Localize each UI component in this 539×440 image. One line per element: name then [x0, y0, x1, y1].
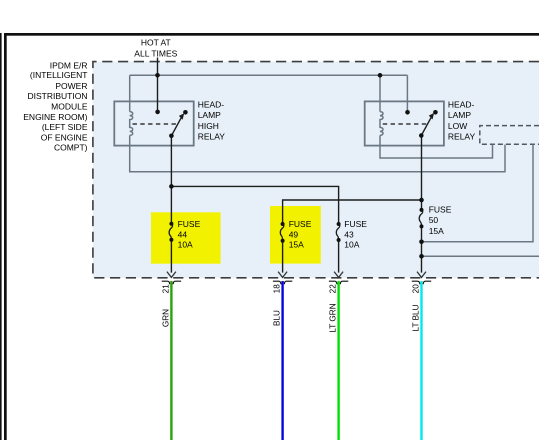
- svg-text:21: 21: [162, 284, 171, 294]
- svg-text:LAMP: LAMP: [448, 110, 471, 120]
- svg-text:RELAY: RELAY: [198, 131, 226, 141]
- svg-text:BLU: BLU: [273, 310, 282, 326]
- svg-text:15A: 15A: [429, 226, 444, 236]
- svg-text:44: 44: [178, 229, 188, 239]
- svg-text:MODULE: MODULE: [51, 102, 88, 112]
- svg-text:DISTRIBUTION: DISTRIBUTION: [28, 91, 88, 101]
- svg-text:HEAD-: HEAD-: [198, 100, 225, 110]
- svg-text:HEAD-: HEAD-: [448, 100, 475, 110]
- svg-text:ALL TIMES: ALL TIMES: [134, 48, 177, 58]
- svg-text:POWER: POWER: [55, 81, 87, 91]
- svg-text:HOT AT: HOT AT: [141, 37, 171, 47]
- svg-text:HIGH: HIGH: [198, 121, 219, 131]
- svg-text:FUSE: FUSE: [429, 205, 452, 215]
- svg-text:LT GRN: LT GRN: [329, 303, 338, 332]
- svg-text:LT BLU: LT BLU: [412, 304, 421, 331]
- svg-text:(LEFT SIDE: (LEFT SIDE: [42, 122, 88, 132]
- svg-text:10A: 10A: [344, 240, 359, 250]
- svg-text:FUSE: FUSE: [178, 219, 201, 229]
- svg-text:20: 20: [412, 284, 421, 294]
- svg-text:43: 43: [344, 229, 354, 239]
- svg-text:COMPT): COMPT): [54, 143, 88, 153]
- svg-text:(INTELLIGENT: (INTELLIGENT: [30, 70, 88, 80]
- svg-text:18: 18: [273, 284, 282, 294]
- svg-text:FUSE: FUSE: [289, 219, 312, 229]
- svg-text:49: 49: [289, 229, 299, 239]
- svg-text:GRN: GRN: [162, 309, 171, 327]
- svg-text:15A: 15A: [289, 240, 304, 250]
- svg-text:RELAY: RELAY: [448, 131, 476, 141]
- svg-text:10A: 10A: [178, 240, 193, 250]
- svg-text:22: 22: [329, 284, 338, 294]
- svg-text:ENGINE ROOM): ENGINE ROOM): [23, 112, 87, 122]
- svg-text:FUSE: FUSE: [344, 219, 367, 229]
- svg-text:OF ENGINE: OF ENGINE: [41, 132, 88, 142]
- svg-text:LOW: LOW: [448, 121, 467, 131]
- svg-text:50: 50: [429, 215, 439, 225]
- svg-text:LAMP: LAMP: [198, 110, 221, 120]
